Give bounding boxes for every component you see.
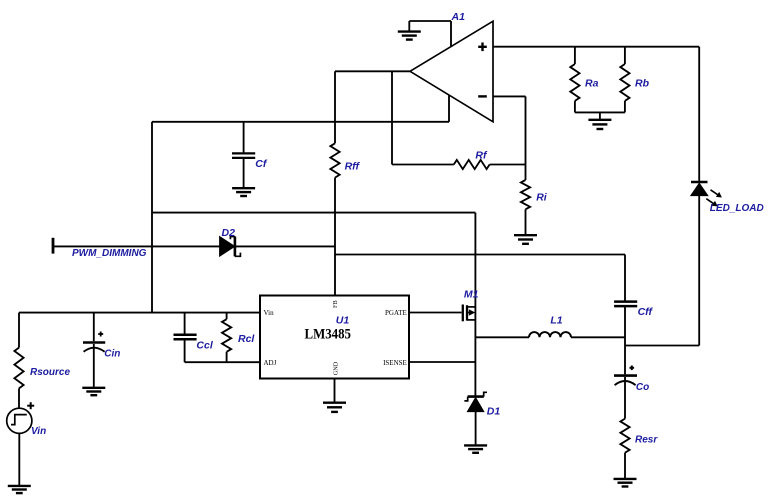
wire U1 GND pin xyxy=(334,379,336,402)
svg-text:LM3485: LM3485 xyxy=(305,326,352,342)
resistor Rsource xyxy=(14,313,23,409)
LED LED_LOAD xyxy=(691,182,722,206)
capacitor Cin xyxy=(83,313,105,387)
wire A1 output to FB rail xyxy=(335,70,410,72)
wire Vin node xyxy=(19,312,260,314)
wire Vin source to ground xyxy=(18,433,20,485)
op-amp A1 xyxy=(410,21,493,122)
wire output node xyxy=(625,345,699,347)
pin label GND xyxy=(333,361,340,375)
label Ra xyxy=(585,77,599,89)
label Rff xyxy=(345,161,361,173)
svg-text:Ri: Ri xyxy=(536,192,548,204)
svg-text:FB: FB xyxy=(332,300,339,308)
wire Ra Rb bottom xyxy=(575,112,625,119)
label D2 xyxy=(222,227,236,239)
svg-text:GND: GND xyxy=(333,361,340,375)
svg-text:Cin: Cin xyxy=(104,348,120,359)
svg-text:ADJ: ADJ xyxy=(264,359,277,367)
resistor Rb xyxy=(620,47,629,113)
ground (Cf) xyxy=(232,188,255,196)
wire V- horizontal xyxy=(152,121,449,123)
wire LED top xyxy=(698,47,700,182)
svg-text:Rf: Rf xyxy=(475,149,488,161)
label L1 xyxy=(550,314,562,326)
wire FB rail upper xyxy=(334,71,336,143)
svg-text:ISENSE: ISENSE xyxy=(383,359,407,367)
ground (Resr) xyxy=(614,479,637,487)
ground (Ra/Rb) xyxy=(588,120,611,129)
svg-text:Rb: Rb xyxy=(635,77,650,89)
wire FB rail lower xyxy=(334,178,336,296)
label A1 xyxy=(451,11,466,23)
wire Vin to M1 source xyxy=(152,212,475,214)
ground (A1 supply) xyxy=(398,21,421,40)
svg-text:D1: D1 xyxy=(487,406,501,418)
resistor Ra xyxy=(570,47,579,113)
wire ISENSE xyxy=(409,361,475,363)
pin label ISENSE xyxy=(383,359,407,367)
resistor Ri xyxy=(521,165,530,235)
diode D2 xyxy=(220,236,241,256)
diode D1 xyxy=(464,392,487,444)
label D1 xyxy=(487,406,501,418)
svg-text:Rcl: Rcl xyxy=(238,333,255,345)
svg-text:M1: M1 xyxy=(464,289,479,301)
wire ground to A1 top edge xyxy=(409,21,451,47)
resistor Resr xyxy=(620,419,629,478)
capacitor Cff xyxy=(614,302,637,375)
ground (Cin) xyxy=(82,388,105,395)
wire switch vertical xyxy=(474,213,476,397)
label Rf xyxy=(475,149,488,161)
svg-text:A1: A1 xyxy=(451,11,466,23)
pin label PGATE xyxy=(385,309,407,317)
wire A1 V- pin xyxy=(448,95,450,122)
wire A1 output branch to Rf xyxy=(391,71,393,164)
svg-text:PGATE: PGATE xyxy=(385,309,407,317)
wire PGATE to M1 gate xyxy=(409,312,462,314)
svg-text:Rff: Rff xyxy=(345,161,361,173)
pin label ADJ xyxy=(264,359,277,367)
wire FB to Cff xyxy=(335,254,625,256)
svg-text:Resr: Resr xyxy=(635,435,658,446)
label Cf xyxy=(255,158,268,170)
label LED_LOAD xyxy=(710,203,764,214)
wire LED bottom xyxy=(698,196,700,346)
svg-text:Ccl: Ccl xyxy=(196,339,213,351)
wire ADJ xyxy=(185,361,260,363)
label Rcl xyxy=(238,333,255,345)
wire left Vin rail xyxy=(151,122,153,313)
label Ri xyxy=(536,192,548,204)
svg-text:D2: D2 xyxy=(222,227,236,239)
label M1 xyxy=(464,289,479,301)
label U1 xyxy=(336,314,350,326)
ground (Vin) xyxy=(8,486,31,493)
svg-text:Ra: Ra xyxy=(585,77,599,89)
inductor L1 xyxy=(475,332,625,337)
IC U1 box xyxy=(260,296,409,379)
label Co xyxy=(636,382,649,393)
capacitor Co xyxy=(614,366,637,419)
ground (D1) xyxy=(464,445,487,452)
capacitor Cf xyxy=(232,122,255,188)
transistor M1 xyxy=(463,305,476,322)
pin label Vin xyxy=(264,309,275,317)
svg-text:Vin: Vin xyxy=(31,426,46,437)
svg-text:Cf: Cf xyxy=(255,158,268,170)
svg-text:Cff: Cff xyxy=(638,306,654,318)
resistor Rff xyxy=(330,143,339,177)
svg-text:LED_LOAD: LED_LOAD xyxy=(710,203,764,214)
wire PWM input xyxy=(53,245,335,247)
wire A1 - input xyxy=(493,96,526,164)
svg-text:Rsource: Rsource xyxy=(30,367,70,378)
svg-text:U1: U1 xyxy=(336,314,350,326)
port PWM_DIMMING xyxy=(52,238,55,254)
wire A1 + input to LED xyxy=(493,46,699,48)
source Vin xyxy=(7,402,35,433)
wire Cff rail xyxy=(624,255,626,302)
svg-text:Vin: Vin xyxy=(264,309,275,317)
ground (U1) xyxy=(323,403,346,412)
label Resr xyxy=(635,435,658,446)
label Vin source xyxy=(31,426,46,437)
ground (Ri) xyxy=(514,235,537,244)
label Ccl xyxy=(196,339,213,351)
svg-text:L1: L1 xyxy=(550,314,562,326)
pin label FB xyxy=(332,300,339,308)
resistor Rf xyxy=(392,160,526,169)
label Cin xyxy=(104,348,120,359)
label LM3485 xyxy=(305,326,352,342)
label Cff xyxy=(638,306,654,318)
label Rsource xyxy=(30,367,70,378)
svg-text:PWM_DIMMING: PWM_DIMMING xyxy=(72,248,147,259)
svg-text:Co: Co xyxy=(636,382,649,393)
label Rb xyxy=(635,77,650,89)
capacitor Ccl xyxy=(174,313,197,363)
resistor Rcl xyxy=(222,313,231,363)
